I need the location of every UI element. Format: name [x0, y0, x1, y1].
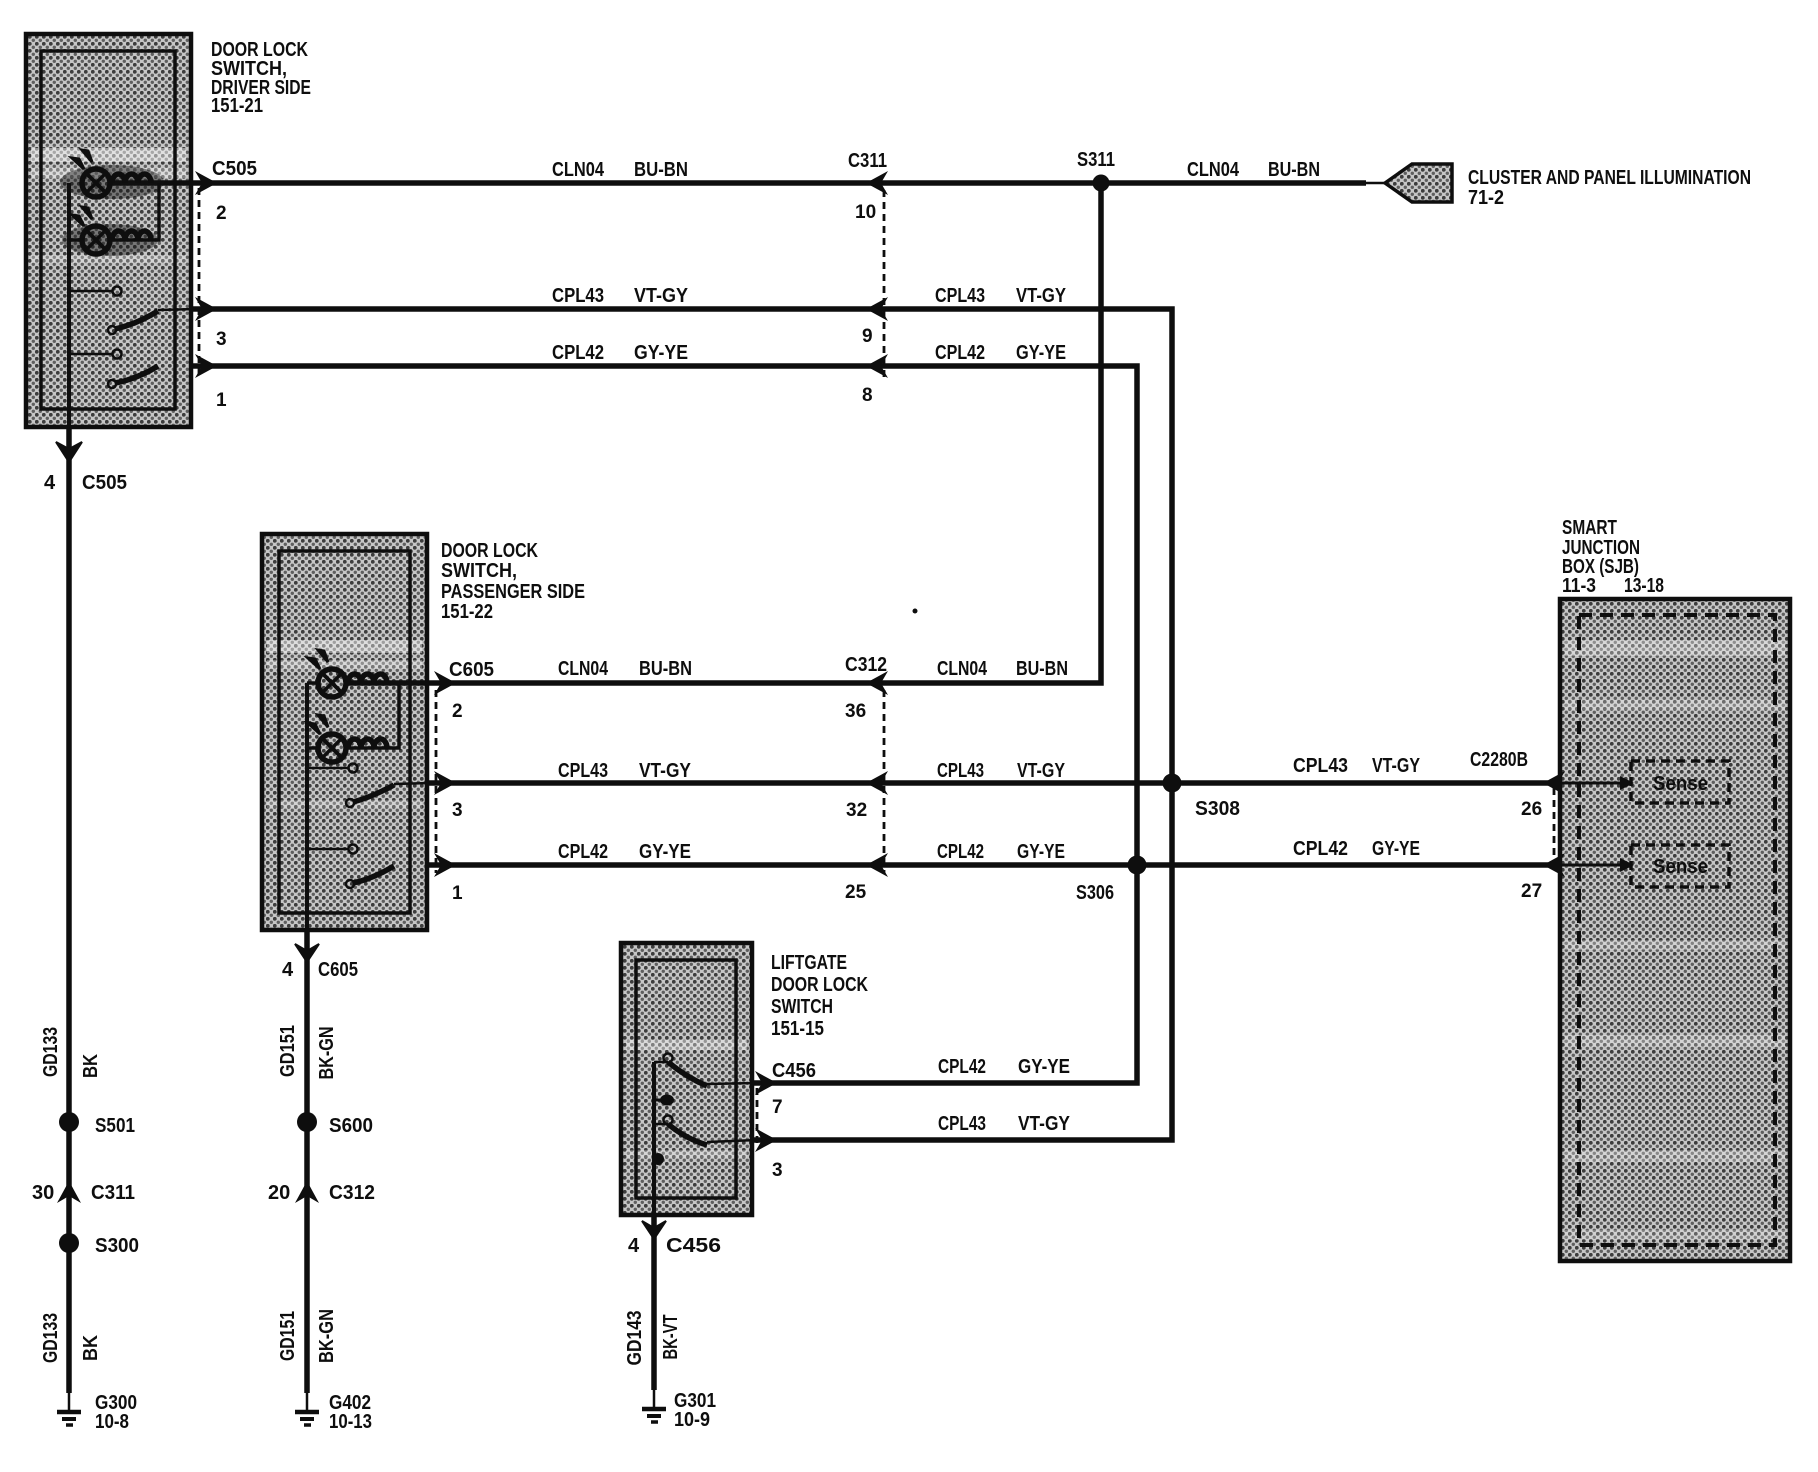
- smart junction box inner dashed rectangle: [1579, 615, 1775, 1245]
- passenger switch inner rectangle: [279, 551, 410, 913]
- splice S300: [59, 1233, 79, 1253]
- svg-text:C2280B: C2280B: [1470, 749, 1528, 771]
- svg-text:SMART: SMART: [1562, 517, 1617, 539]
- driver switch lamp 1 ballast coil: [112, 174, 151, 183]
- svg-text:BK-GN: BK-GN: [316, 1309, 338, 1363]
- svg-text:VT-GY: VT-GY: [1018, 1113, 1071, 1135]
- connector arrow C456 pin 3: [755, 1128, 777, 1152]
- label DOOR LOCK SWITCH PASSENGER SIDE 151-22: [441, 540, 585, 623]
- svg-text:BK: BK: [80, 1335, 102, 1361]
- connector arrow C2280B pin 26: [1543, 771, 1565, 795]
- svg-text:CPL42: CPL42: [935, 342, 985, 364]
- label DOOR LOCK SWITCH DRIVER SIDE 151-21: [211, 39, 311, 117]
- connector arrow C311 pin 10: [866, 171, 888, 195]
- svg-text:4: 4: [282, 959, 294, 981]
- svg-text:71-2: 71-2: [1468, 187, 1504, 209]
- svg-text:C311: C311: [91, 1182, 135, 1204]
- driver switch internal link lamps to exit: [110, 183, 159, 240]
- svg-text:3: 3: [452, 800, 463, 821]
- connector arrow C456 pin 4 downward: [642, 1221, 666, 1239]
- svg-text:2: 2: [216, 203, 227, 224]
- ground G300 symbol: [57, 1412, 81, 1425]
- connector arrow C312 pin 36: [866, 671, 888, 695]
- svg-text:PASSENGER SIDE: PASSENGER SIDE: [441, 581, 585, 603]
- svg-text:CPL42: CPL42: [938, 1056, 986, 1078]
- svg-text:BK: BK: [80, 1054, 102, 1078]
- svg-text:VT-GY: VT-GY: [1016, 285, 1067, 307]
- svg-text:SWITCH: SWITCH: [771, 996, 833, 1018]
- svg-text:10-13: 10-13: [329, 1411, 372, 1433]
- svg-text:13-18: 13-18: [1624, 575, 1664, 597]
- svg-text:BK-GN: BK-GN: [316, 1027, 338, 1080]
- driver switch inner rectangle: [41, 51, 175, 409]
- svg-text:GD133: GD133: [40, 1313, 62, 1363]
- label CPL42 GY-YE liftgate: [938, 1056, 1070, 1078]
- svg-text:C605: C605: [449, 659, 494, 681]
- label G402 10-13: [329, 1392, 372, 1433]
- driver switch blade to pin 3: [108, 309, 196, 334]
- passenger switch contact unlock side: [307, 845, 358, 854]
- connector arrow C312 pin 20 upward: [295, 1181, 319, 1203]
- pin 4 and C605 bottom label: [282, 959, 358, 981]
- svg-text:2: 2: [452, 701, 463, 722]
- splice S311: [1093, 175, 1110, 192]
- label GD151 BK-GN lower: [277, 1309, 338, 1363]
- connector arrow C2280B pin 27: [1543, 853, 1565, 877]
- svg-text:C505: C505: [212, 158, 257, 180]
- svg-text:GD151: GD151: [277, 1025, 299, 1077]
- label GD133 BK lower: [40, 1313, 102, 1363]
- svg-text:10-9: 10-9: [674, 1409, 710, 1431]
- splice S308: [1163, 774, 1182, 793]
- connector C605 dashed line: [435, 690, 438, 873]
- wire CPL43 VT-GY passenger C605-3 through S308 to SJB pin 26: [428, 780, 1548, 786]
- svg-text:151-15: 151-15: [771, 1018, 824, 1040]
- connector C311 dashed line: [883, 190, 886, 380]
- connector arrow C312 pin 25: [866, 853, 888, 877]
- svg-text:GD133: GD133: [40, 1027, 62, 1077]
- svg-text:151-21: 151-21: [211, 95, 263, 117]
- svg-text:CLN04: CLN04: [552, 159, 605, 181]
- svg-text:25: 25: [845, 882, 867, 903]
- svg-text:S501: S501: [95, 1115, 135, 1137]
- connector arrow C312 pin 32: [866, 771, 888, 795]
- svg-text:BU-BN: BU-BN: [639, 658, 692, 680]
- driver switch contact unlock side: [69, 350, 122, 359]
- svg-text:C312: C312: [329, 1182, 375, 1204]
- svg-text:S300: S300: [95, 1235, 139, 1257]
- svg-text:1: 1: [216, 390, 227, 411]
- liftgate door lock switch box body: [621, 943, 752, 1215]
- driver switch lamp 2: [69, 207, 110, 254]
- svg-text:C505: C505: [82, 472, 127, 494]
- label GD133 BK upper: [40, 1027, 102, 1078]
- connector arrow C605 pin 2: [434, 671, 456, 695]
- svg-text:CPL42: CPL42: [552, 342, 604, 364]
- svg-text:BU-BN: BU-BN: [634, 159, 688, 181]
- wire GD143 BK-VT liftgate C456-4 down to G301: [651, 1215, 657, 1390]
- svg-text:BU-BN: BU-BN: [1016, 658, 1068, 680]
- svg-text:CPL42: CPL42: [1293, 838, 1348, 860]
- label CPL43 VT-GY right of C311: [935, 285, 1067, 307]
- connector arrow C311 pin 8: [866, 354, 888, 378]
- svg-text:C605: C605: [318, 959, 358, 981]
- wire CPL42 GY-YE driver C505-1 right then down to liftgate C456-7: [191, 366, 1137, 1083]
- liftgate switch internal common wire to pin 4: [652, 1062, 656, 1215]
- passenger side door lock switch box body: [262, 534, 427, 930]
- connector arrow C311 pin 30 upward: [57, 1181, 81, 1203]
- passenger switch internal common wire to pin 4: [305, 683, 309, 930]
- svg-text:VT-GY: VT-GY: [634, 285, 689, 307]
- svg-text:27: 27: [1521, 881, 1542, 902]
- passenger switch blade to pin 1: [346, 866, 394, 888]
- svg-text:LIFTGATE: LIFTGATE: [771, 952, 847, 974]
- liftgate switch inner rectangle: [636, 960, 736, 1198]
- label GD143 BK-VT: [624, 1311, 682, 1366]
- svg-text:CPL42: CPL42: [937, 841, 984, 863]
- label CLN04 BU-BN passenger left: [558, 658, 692, 680]
- connector arrow C505 pin 3: [195, 297, 217, 321]
- connector arrow C505 pin 2: [195, 171, 217, 195]
- connector arrow C311 pin 9: [866, 297, 888, 321]
- svg-text:VT-GY: VT-GY: [639, 760, 692, 782]
- svg-text:BU-BN: BU-BN: [1268, 159, 1320, 181]
- driver switch lamp 2 ballast coil: [112, 231, 151, 240]
- connector C456 dashed line: [756, 1088, 759, 1147]
- svg-text:10: 10: [855, 202, 876, 223]
- connector C2280B dashed line: [1553, 788, 1556, 860]
- svg-text:GY-YE: GY-YE: [639, 841, 691, 863]
- label CLN04 BU-BN left: [552, 159, 688, 181]
- wire GD133 BK driver C505-4 down to G300: [66, 427, 72, 1393]
- driver side door lock switch box body: [26, 34, 191, 427]
- passenger switch lamp 2 ballast coil: [348, 739, 387, 748]
- passenger switch lamp 1 ballast coil: [348, 674, 387, 683]
- SJB sense block upper: [1562, 761, 1729, 803]
- svg-text:C312: C312: [845, 654, 887, 676]
- wire GD151 BK-GN passenger C605-4 down to G402: [304, 930, 310, 1393]
- wire CLN04 BU-BN passenger C605-2 right then up to S311: [345, 183, 1101, 683]
- svg-text:CPL43: CPL43: [935, 285, 985, 307]
- wire CPL42 GY-YE passenger C605-1 through S306 to SJB pin 27: [428, 862, 1548, 868]
- svg-text:7: 7: [772, 1097, 783, 1118]
- passenger switch lamp 1: [307, 650, 346, 697]
- connector arrow C456 pin 7: [755, 1071, 777, 1095]
- pin 30 and C311 bottom label: [32, 1182, 135, 1204]
- passenger switch lamp 2: [307, 715, 346, 762]
- label LIFTGATE DOOR LOCK SWITCH 151-15: [771, 952, 868, 1040]
- connector arrow C605 pin 1: [434, 853, 456, 877]
- driver switch lamp 1: [72, 150, 110, 197]
- pin 4 and C456 bottom label: [628, 1235, 721, 1257]
- label CPL42 GY-YE left: [552, 342, 688, 364]
- label CLN04 BU-BN right of C312: [937, 658, 1068, 680]
- svg-text:CLN04: CLN04: [1187, 159, 1240, 181]
- svg-text:C456: C456: [772, 1060, 816, 1082]
- svg-text:S306: S306: [1076, 882, 1114, 904]
- svg-text:S311: S311: [1077, 149, 1115, 171]
- svg-text:GD151: GD151: [277, 1311, 299, 1361]
- svg-text:10-8: 10-8: [95, 1411, 129, 1433]
- svg-text:DOOR LOCK: DOOR LOCK: [441, 540, 538, 562]
- label CPL42 GY-YE right of C312: [937, 841, 1065, 863]
- svg-text:36: 36: [845, 701, 866, 722]
- SJB sense block lower: [1562, 845, 1729, 887]
- svg-text:C311: C311: [848, 150, 887, 172]
- svg-text:3: 3: [772, 1160, 783, 1181]
- liftgate switch internal junction: [652, 1153, 664, 1165]
- svg-text:1: 1: [452, 883, 463, 904]
- svg-text:S308: S308: [1195, 798, 1240, 820]
- label G300 10-8: [95, 1392, 137, 1433]
- label CPL43 VT-GY right of C312: [937, 760, 1066, 782]
- svg-text:CPL43: CPL43: [1293, 755, 1348, 777]
- label CLUSTER AND PANEL ILLUMINATION 71-2: [1468, 167, 1751, 209]
- pin 4 and C505 bottom label: [44, 472, 127, 494]
- connector arrow C605 pin 4 downward: [295, 944, 319, 962]
- passenger switch blade to pin 3: [346, 783, 430, 807]
- svg-text:4: 4: [628, 1235, 640, 1257]
- off-page connector CLUSTER AND PANEL ILLUMINATION 71-2: [1385, 164, 1452, 202]
- stray mark: [913, 609, 918, 614]
- svg-text:GY-YE: GY-YE: [634, 342, 688, 364]
- label CPL42 GY-YE passenger left: [558, 841, 691, 863]
- splice S501: [59, 1112, 79, 1132]
- driver switch blade to pin 1: [108, 366, 158, 388]
- label G301 10-9: [674, 1390, 716, 1431]
- label CPL43 VT-GY passenger left: [558, 760, 692, 782]
- label CPL43 VT-GY to SJB: [1293, 755, 1421, 777]
- ground G402 symbol: [295, 1412, 319, 1425]
- splice S306: [1128, 856, 1147, 875]
- label CPL43 VT-GY left: [552, 285, 689, 307]
- label GD151 BK-GN upper: [277, 1025, 338, 1080]
- liftgate switch contact pin 3 side: [664, 1116, 673, 1125]
- wire CPL43 VT-GY driver C505-3 right then down to liftgate C456-3: [191, 309, 1172, 1140]
- connector C505 dashed line: [198, 188, 201, 374]
- svg-text:26: 26: [1521, 799, 1542, 820]
- svg-text:GD143: GD143: [624, 1311, 646, 1366]
- svg-text:Sense: Sense: [1653, 773, 1708, 795]
- liftgate switch blade to pin 3: [654, 1124, 757, 1145]
- wire CLN04 BU-BN S311 to cluster connector (thin tail): [1366, 182, 1390, 185]
- svg-text:151-22: 151-22: [441, 601, 493, 623]
- label CPL42 GY-YE to SJB: [1293, 838, 1420, 860]
- svg-text:4: 4: [44, 472, 56, 494]
- svg-text:CPL42: CPL42: [558, 841, 608, 863]
- liftgate switch blade to pin 7: [654, 1062, 757, 1086]
- svg-text:CPL43: CPL43: [558, 760, 608, 782]
- passenger switch internal link lamps to exit: [345, 683, 399, 748]
- svg-text:DOOR LOCK: DOOR LOCK: [771, 974, 868, 996]
- wire CLN04 BU-BN driver C505-2 to S311: [110, 180, 1366, 186]
- svg-text:GY-YE: GY-YE: [1018, 1056, 1070, 1078]
- svg-text:11-3: 11-3: [1562, 575, 1596, 597]
- passenger switch contact lock side: [307, 764, 358, 773]
- driver switch lamp smudge: [60, 165, 164, 256]
- label CPL42 GY-YE right of C311: [935, 342, 1066, 364]
- svg-text:8: 8: [862, 385, 873, 406]
- connector arrow C605 pin 3: [434, 771, 456, 795]
- connector C312 dashed line: [883, 690, 886, 873]
- svg-text:VT-GY: VT-GY: [1017, 760, 1066, 782]
- svg-text:S600: S600: [329, 1115, 373, 1137]
- svg-text:30: 30: [32, 1182, 54, 1204]
- svg-text:GY-YE: GY-YE: [1016, 342, 1066, 364]
- svg-text:9: 9: [862, 326, 873, 347]
- ground G301 symbol: [642, 1409, 666, 1422]
- svg-text:32: 32: [846, 800, 867, 821]
- driver switch internal common wire to pin 4: [67, 183, 71, 427]
- smart junction box body: [1560, 599, 1790, 1261]
- connector arrow C505 pin 1: [195, 354, 217, 378]
- svg-text:GY-YE: GY-YE: [1372, 838, 1420, 860]
- svg-text:BK-VT: BK-VT: [660, 1315, 682, 1360]
- label CLN04 BU-BN right of S311: [1187, 159, 1320, 181]
- svg-text:3: 3: [216, 329, 227, 350]
- svg-text:20: 20: [268, 1182, 290, 1204]
- svg-text:CPL43: CPL43: [937, 760, 984, 782]
- splice S600: [297, 1112, 317, 1132]
- pin 20 and C312 bottom label: [268, 1182, 375, 1204]
- svg-text:CLUSTER AND PANEL ILLUMINATION: CLUSTER AND PANEL ILLUMINATION: [1468, 167, 1751, 189]
- driver switch contact lock side: [69, 287, 122, 296]
- svg-text:VT-GY: VT-GY: [1372, 755, 1421, 777]
- svg-text:SWITCH,: SWITCH,: [441, 560, 517, 582]
- svg-text:CPL43: CPL43: [552, 285, 604, 307]
- svg-text:CLN04: CLN04: [558, 658, 609, 680]
- svg-text:CLN04: CLN04: [937, 658, 988, 680]
- label SMART JUNCTION BOX (SJB) 11-3 13-18: [1562, 517, 1664, 597]
- svg-text:C456: C456: [666, 1235, 721, 1257]
- liftgate switch contact blob: [660, 1095, 674, 1106]
- liftgate switch contact pin 7 side: [664, 1054, 673, 1063]
- svg-text:GY-YE: GY-YE: [1017, 841, 1065, 863]
- connector arrow C505 pin 4 downward: [56, 442, 82, 462]
- svg-text:CPL43: CPL43: [938, 1113, 986, 1135]
- label CPL43 VT-GY liftgate: [938, 1113, 1071, 1135]
- svg-text:Sense: Sense: [1653, 856, 1708, 878]
